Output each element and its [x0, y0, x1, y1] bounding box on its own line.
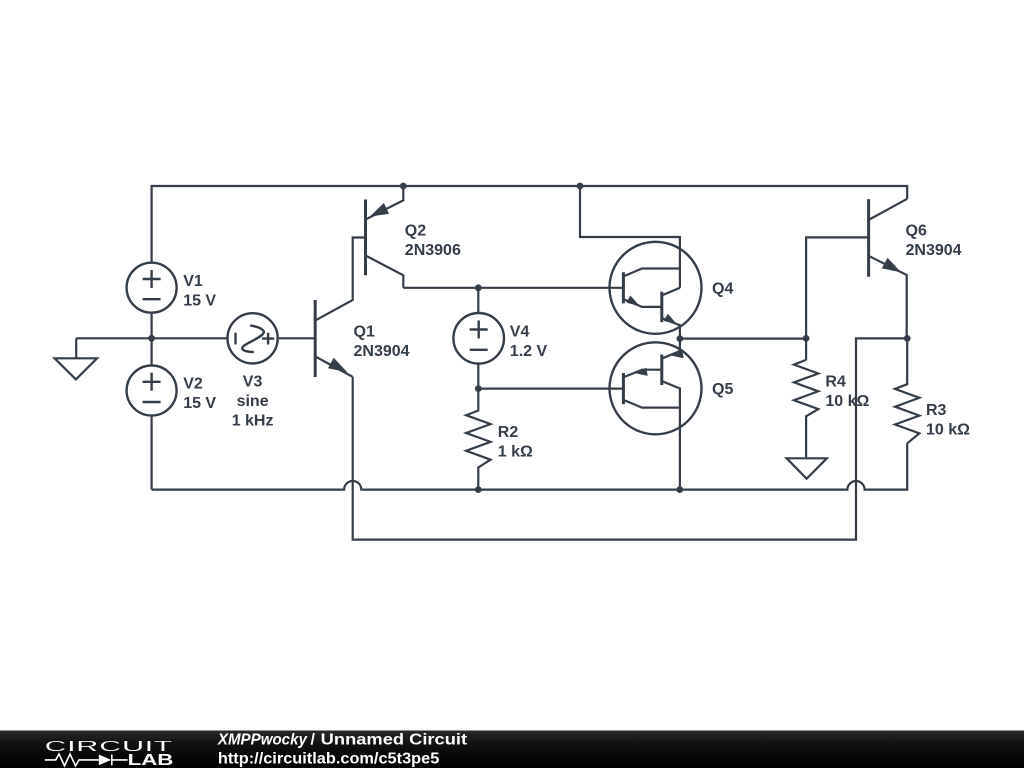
- svg-text:Q5: Q5: [712, 381, 733, 398]
- svg-text:Unnamed Circuit: Unnamed Circuit: [321, 731, 468, 748]
- svg-text:XMPPwocky: XMPPwocky: [217, 731, 308, 748]
- svg-text:10 kΩ: 10 kΩ: [825, 393, 869, 410]
- svg-text:V2: V2: [183, 376, 203, 393]
- svg-text:sine: sine: [237, 393, 269, 410]
- svg-text:1 kΩ: 1 kΩ: [498, 444, 533, 461]
- svg-text:Q2: Q2: [405, 223, 426, 240]
- svg-text:15 V: 15 V: [183, 395, 216, 412]
- svg-text:2N3904: 2N3904: [906, 242, 962, 259]
- svg-text:/: /: [311, 731, 316, 748]
- svg-text:V3: V3: [243, 373, 263, 390]
- svg-text:R2: R2: [498, 424, 519, 441]
- svg-text:Q4: Q4: [712, 281, 733, 298]
- svg-text:Q6: Q6: [906, 223, 927, 240]
- svg-text:Q1: Q1: [354, 324, 375, 341]
- svg-text:10 kΩ: 10 kΩ: [926, 422, 970, 439]
- svg-text:V1: V1: [183, 273, 203, 290]
- svg-text:LAB: LAB: [128, 752, 174, 768]
- svg-text:2N3906: 2N3906: [405, 242, 461, 259]
- svg-text:15 V: 15 V: [183, 292, 216, 309]
- svg-text:1.2 V: 1.2 V: [510, 343, 548, 360]
- svg-text:1 kHz: 1 kHz: [232, 412, 274, 429]
- svg-text:R3: R3: [926, 402, 947, 419]
- svg-text:http://circuitlab.com/c5t3pe5: http://circuitlab.com/c5t3pe5: [218, 751, 440, 768]
- svg-text:R4: R4: [825, 373, 846, 390]
- svg-text:2N3904: 2N3904: [354, 343, 410, 360]
- svg-text:V4: V4: [510, 323, 530, 340]
